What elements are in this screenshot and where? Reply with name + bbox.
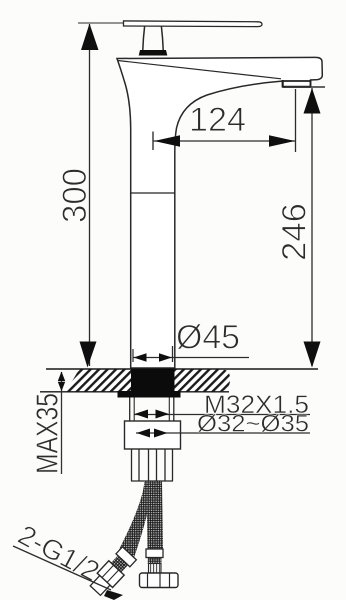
body face line <box>118 61 282 79</box>
dim 300 line <box>89 24 91 366</box>
MAX35 dimension line <box>61 372 63 474</box>
handle stem dark base <box>139 50 168 56</box>
M32X1.5 arrows <box>135 410 149 419</box>
countertop bottom line <box>40 391 229 393</box>
dim Ø45 left extension tick <box>132 349 134 362</box>
mounting flange below counter (black) <box>118 391 181 398</box>
Ø32~Ø35 arrows <box>137 429 151 438</box>
handle stem <box>143 27 145 51</box>
dim 300 top arrow <box>81 24 99 51</box>
aerator <box>283 80 311 88</box>
Ø32~Ø35 leader line <box>136 432 310 434</box>
left hose connector group <box>88 547 138 598</box>
countertop top surface line <box>46 368 318 370</box>
dim 124 line <box>154 140 296 142</box>
dim 300 top extension line <box>78 22 128 24</box>
dim 124 right arrow <box>269 135 295 147</box>
svg-text:124: 124 <box>189 101 246 139</box>
dim Ø45 right arrow <box>159 353 172 362</box>
dim 246 top extension line <box>286 86 325 88</box>
svg-text:MAX35: MAX35 <box>30 393 65 474</box>
body-column joint line <box>131 192 175 194</box>
faucet body and spout outline <box>117 57 322 368</box>
right hose braid <box>147 481 164 549</box>
dim 124 tick <box>152 132 154 151</box>
MAX35 up arrow <box>58 372 65 382</box>
svg-text:246: 246 <box>276 203 314 261</box>
dim 246 line <box>311 88 313 366</box>
sleeve fork prongs <box>131 449 133 481</box>
dim 300 bottom arrow <box>80 342 97 368</box>
dim 124 right extension line <box>295 89 297 152</box>
dim 246 top arrow <box>304 88 321 114</box>
right hose ferrule <box>146 549 163 558</box>
left hose hex nut <box>97 561 124 588</box>
MAX35 down arrow <box>58 382 65 392</box>
handle lever bar <box>124 21 263 27</box>
dim 246 bottom arrow <box>304 342 321 368</box>
left connector dark tip end <box>104 590 123 600</box>
M32X1.5 leader line <box>134 414 310 416</box>
dim 124 left arrow <box>154 135 180 147</box>
sleeve bottom edge <box>131 480 173 482</box>
mounting sleeve <box>125 421 181 449</box>
left hose braid collar <box>111 556 128 573</box>
dim Ø45 left arrow <box>134 353 147 362</box>
left hose braid <box>119 481 153 559</box>
right hose hex nut <box>140 573 179 588</box>
left hose ferrule <box>116 547 136 567</box>
faucet base through counter (black) <box>131 369 175 392</box>
svg-text:Ø45: Ø45 <box>176 319 240 357</box>
dim Ø45 line and leader <box>133 357 249 359</box>
2-G1/2 leader line <box>13 546 111 590</box>
svg-text:300: 300 <box>56 168 94 223</box>
right hose thread <box>149 564 162 574</box>
left hose threaded tip <box>90 576 110 596</box>
dim Ø45 right extension tick <box>172 346 174 362</box>
threaded shank below flange <box>129 398 131 422</box>
countertop hatched slab <box>66 370 230 392</box>
svg-text:Ø32~Ø35: Ø32~Ø35 <box>197 411 309 438</box>
